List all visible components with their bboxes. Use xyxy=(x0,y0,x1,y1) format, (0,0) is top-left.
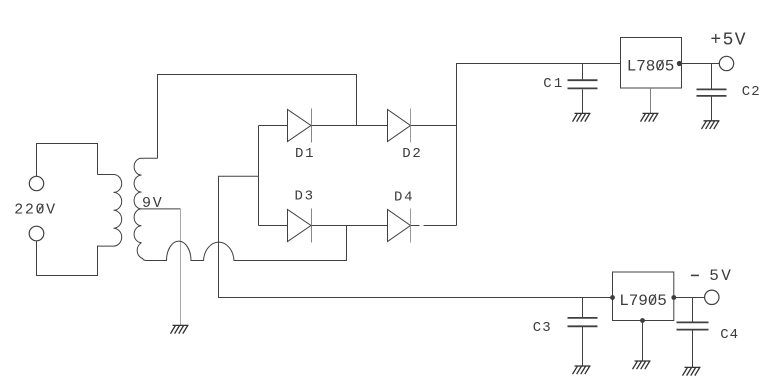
capacitor C4 xyxy=(692,298,694,323)
svg-text:C1: C1 xyxy=(543,76,564,92)
capacitor C1 xyxy=(582,64,584,80)
transformer secondary coil xyxy=(134,158,157,260)
slash on 0 of L7905 xyxy=(650,294,656,305)
svg-text:C4: C4 xyxy=(720,327,739,343)
capacitor C2 xyxy=(711,64,713,90)
wire 220V loop top xyxy=(37,144,98,177)
node U1 output dot xyxy=(677,61,682,66)
terminal -5V xyxy=(705,290,719,304)
terminal T2 xyxy=(29,226,44,241)
wire D4 output xyxy=(411,225,457,227)
svg-text:L7905: L7905 xyxy=(619,292,667,310)
wire secondary bottom with hops xyxy=(147,226,347,261)
ground C1 xyxy=(573,113,591,121)
svg-text:C3: C3 xyxy=(533,320,552,336)
wire D1 to D2 xyxy=(312,125,388,127)
diode D4 xyxy=(388,210,411,242)
label -5V xyxy=(691,274,699,276)
svg-text:C2: C2 xyxy=(742,84,761,100)
wire D3 input xyxy=(259,225,288,227)
wire +5V output xyxy=(682,63,720,65)
svg-text:D1: D1 xyxy=(295,146,315,162)
diode D1 xyxy=(288,110,312,142)
transformer primary coil xyxy=(98,175,122,247)
ground C4 xyxy=(683,367,701,375)
node U2 ground dot xyxy=(640,318,645,323)
svg-text:D2: D2 xyxy=(402,146,422,162)
slash on 0 of 220V xyxy=(38,204,44,213)
wire U2 ground xyxy=(642,321,644,362)
svg-text:220V: 220V xyxy=(14,202,56,219)
wire positive rail xyxy=(457,64,621,226)
regulator U2 L7905 xyxy=(613,272,674,321)
ground C2 xyxy=(702,121,720,129)
diode D2 xyxy=(388,110,411,142)
capacitor C3 xyxy=(582,298,584,318)
wire center tap xyxy=(142,208,181,210)
wire 220V loop bottom xyxy=(37,241,98,276)
svg-text:L7805: L7805 xyxy=(627,57,675,75)
svg-text:+5V: +5V xyxy=(710,31,747,51)
wire D3 to D4 xyxy=(312,225,388,227)
wire secondary top to D1-D2 node xyxy=(158,75,357,159)
wire negative rail xyxy=(219,176,613,297)
ground U1 xyxy=(641,113,659,121)
wire bridge left vertical xyxy=(258,126,260,226)
regulator U1 L7805 xyxy=(621,38,682,89)
svg-text:5V: 5V xyxy=(709,267,733,285)
ground C3 xyxy=(573,366,591,374)
slash on 0 of L7805 xyxy=(658,60,664,70)
node U2 input dot xyxy=(610,295,615,300)
svg-text:D4: D4 xyxy=(394,189,414,205)
svg-text:D3: D3 xyxy=(295,189,315,205)
node U2 output dot xyxy=(671,295,676,300)
wire U1 ground xyxy=(650,88,652,113)
wire -5V output xyxy=(674,297,705,299)
ground U2 xyxy=(633,361,651,369)
wire D1 input xyxy=(259,125,288,127)
diode D3 xyxy=(288,210,312,242)
terminal T1 xyxy=(29,176,43,190)
ground center tap xyxy=(171,325,189,333)
terminal +5V xyxy=(719,56,733,70)
wire D2 output xyxy=(411,125,457,127)
